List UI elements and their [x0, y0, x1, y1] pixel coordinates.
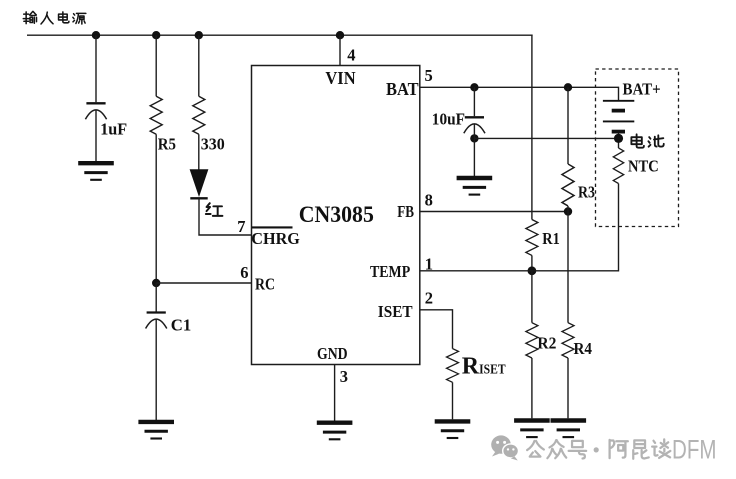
svg-text:R5: R5	[158, 134, 176, 153]
thermistor NTC	[613, 138, 623, 183]
ground (R2)	[514, 421, 550, 438]
wire TEMP net	[420, 184, 619, 271]
node FB junction	[564, 207, 572, 215]
resistor R3	[562, 87, 574, 211]
svg-text:4: 4	[347, 46, 355, 65]
svg-text:FB: FB	[397, 202, 414, 221]
svg-text:R3: R3	[578, 183, 595, 202]
svg-text:CHRG: CHRG	[251, 229, 300, 248]
node battery minus	[614, 134, 623, 143]
svg-text:RC: RC	[255, 275, 275, 294]
wire BAT net to battery	[420, 87, 619, 101]
wire C1 to ground	[155, 320, 157, 421]
node TEMP junction	[528, 266, 537, 275]
ground (IC GND)	[317, 423, 353, 440]
svg-text:BAT+: BAT+	[623, 80, 661, 99]
svg-text:7: 7	[237, 217, 245, 236]
resistor R2	[526, 271, 538, 419]
ground (RISET)	[435, 421, 471, 438]
svg-text:10uF: 10uF	[432, 109, 465, 128]
wire RISET to ground	[452, 382, 454, 419]
label 输入电源 (input power)	[23, 11, 86, 24]
svg-text:TEMP: TEMP	[370, 262, 410, 281]
capacitor 1uF	[85, 103, 106, 119]
wire ISET to RISET	[420, 310, 453, 349]
ground (input capacitor)	[78, 163, 114, 180]
node BAT to R3	[564, 83, 572, 91]
wire LED cathode to CHRG pin 7	[199, 198, 252, 235]
resistor R4	[562, 212, 574, 419]
svg-text:VIN: VIN	[325, 68, 356, 88]
node rail-Cin junction	[92, 31, 100, 39]
capacitor 10uF	[464, 87, 485, 133]
svg-text:6: 6	[240, 263, 248, 282]
wire VIN pin 4 stub	[339, 35, 341, 65]
wire input capacitor to ground	[95, 111, 97, 162]
label 电池 (battery)	[631, 134, 663, 147]
node RC junction	[152, 279, 160, 287]
op-amp-style IC U1 CN3085 box	[252, 66, 420, 365]
wire RC junction to pin 6	[156, 282, 251, 284]
node BAT to 10uF	[470, 83, 478, 91]
wire battery minus rail	[474, 137, 618, 139]
node rail-330 junction	[195, 31, 203, 39]
svg-text:2: 2	[425, 288, 433, 307]
ground (10uF)	[457, 178, 493, 195]
svg-text:ISET: ISET	[378, 302, 413, 321]
wire 10uF to ground	[473, 124, 475, 176]
svg-text:NTC: NTC	[628, 156, 659, 175]
label CHRG (active-low)	[251, 227, 300, 248]
svg-text:8: 8	[425, 190, 433, 209]
svg-text:3: 3	[340, 367, 348, 386]
battery cell pack	[603, 101, 634, 139]
resistor RISET	[447, 349, 459, 383]
watermark text 公众号·阿昆谈DFM	[527, 434, 716, 464]
ground (R4)	[551, 421, 587, 438]
node rail-R5 junction	[152, 31, 160, 39]
capacitor C1	[146, 313, 167, 329]
wire rail to input capacitor	[95, 35, 97, 102]
wire FB net	[420, 211, 568, 213]
svg-text:RISET: RISET	[462, 354, 506, 380]
svg-text:R4: R4	[574, 339, 593, 358]
svg-text:BAT: BAT	[386, 79, 419, 99]
watermark wechat icon	[491, 435, 518, 460]
wire rail drop to R1 column	[531, 35, 533, 220]
svg-text:CN3085: CN3085	[299, 202, 374, 228]
svg-text:GND: GND	[317, 344, 348, 363]
wire GND pin 3	[334, 365, 336, 421]
svg-text:330: 330	[201, 134, 225, 153]
battery module dashed outline	[596, 69, 679, 227]
svg-text:5: 5	[425, 66, 433, 85]
svg-text:1uF: 1uF	[100, 120, 127, 139]
label 红 (red)	[206, 203, 223, 216]
wire RC junction down to C1	[155, 283, 157, 312]
svg-text:R1: R1	[542, 229, 560, 248]
svg-text:C1: C1	[171, 316, 192, 335]
node rail-VIN junction	[336, 31, 344, 39]
resistor R1	[526, 220, 538, 271]
resistor 330 (LED series)	[193, 35, 205, 170]
resistor R5	[150, 35, 162, 283]
wire input power rail	[27, 34, 533, 36]
svg-text:R2: R2	[537, 333, 556, 352]
node 10uF to battery-minus wire	[470, 134, 478, 142]
svg-text:DFM: DFM	[672, 434, 717, 464]
ground (C1)	[138, 422, 174, 439]
LED D1 (red)	[190, 170, 207, 199]
